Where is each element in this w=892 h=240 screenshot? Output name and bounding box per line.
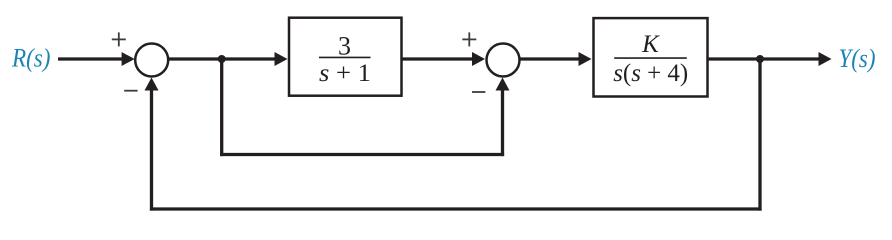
svg-text:R(s): R(s) [11, 44, 50, 73]
svg-text:Y(s): Y(s) [839, 44, 876, 73]
wire outer loop bottom horizontal [150, 207, 762, 210]
node B output junction dot [756, 55, 764, 63]
wire input to summer S1 [58, 57, 123, 60]
minus sign at S2 [472, 91, 485, 93]
wire inner loop bottom horizontal [220, 153, 504, 156]
svg-text:K: K [641, 31, 660, 58]
node A junction dot [218, 55, 226, 63]
block G1 3/(s+1) [289, 18, 402, 96]
wire inner loop up into S2 [501, 90, 504, 157]
svg-text:s + 1: s + 1 [319, 60, 371, 87]
plus sign at S1 [112, 32, 126, 46]
summing junction S2 [487, 44, 520, 77]
fraction bar G1 [319, 56, 371, 58]
wire S1 to block G1 [168, 57, 275, 60]
wire outer loop up into S1 [150, 90, 153, 211]
wire S2 to block G2 [520, 57, 580, 60]
wire inner loop down from node A [220, 59, 223, 156]
svg-text:3: 3 [338, 31, 351, 60]
wire outer loop down from node B [758, 59, 761, 211]
plus sign at S2 [462, 32, 476, 46]
minus sign at S1 [124, 90, 137, 92]
wire G2 to output [708, 57, 820, 60]
fraction bar G2 [614, 57, 687, 59]
summing junction S1 [135, 44, 168, 77]
svg-text:s(s + 4): s(s + 4) [613, 60, 688, 87]
wire G1 to summer S2 [402, 57, 474, 60]
block G2 K/s(s+4) [594, 18, 708, 96]
